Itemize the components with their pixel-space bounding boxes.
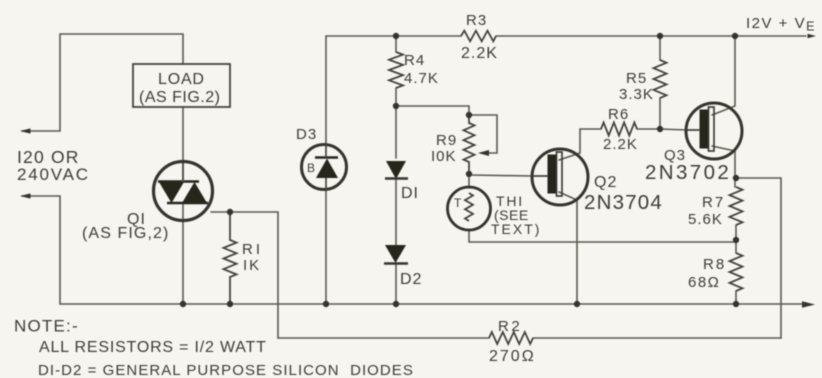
svg-text:(AS FIG,2): (AS FIG,2) — [82, 225, 169, 242]
node R4 top rail — [393, 33, 399, 39]
wire R7 to R8 — [735, 225, 737, 253]
wire R9 node to Q2 base — [469, 175, 533, 176]
arrow R9 wiper — [478, 150, 489, 156]
svg-text:R7: R7 — [702, 194, 725, 211]
svg-text:2N3704: 2N3704 — [584, 191, 663, 214]
transistor Q2 — [532, 149, 588, 205]
node R1 bottom rail — [227, 301, 233, 307]
wire top-left input riser — [22, 34, 183, 131]
triac Q1 — [154, 162, 213, 221]
node R5 top rail — [657, 33, 663, 39]
arrow bottom rail — [802, 301, 815, 307]
arrowheads — [20, 34, 816, 308]
node R7-R8 — [733, 237, 739, 243]
svg-text:ALL RESISTORS = I/2 WATT: ALL RESISTORS = I/2 WATT — [39, 339, 267, 356]
node R8 bottom rail — [733, 301, 739, 307]
arrow lower input — [20, 193, 31, 198]
wire D1 to D2 — [395, 178, 397, 245]
wire lower input to bottom rail — [22, 196, 60, 304]
svg-text:2N3702: 2N3702 — [645, 161, 731, 184]
svg-text:DI: DI — [401, 185, 419, 202]
resistor R5 3.3K — [654, 60, 667, 98]
wire R4 top lead — [395, 36, 397, 52]
wire LOAD to triac Q1 — [182, 107, 184, 163]
diode D3 in circle — [302, 145, 347, 191]
svg-text:Q2: Q2 — [594, 174, 617, 191]
svg-text:2.2K: 2.2K — [603, 136, 638, 153]
wire R8 to bottom rail — [735, 291, 737, 304]
wire R9 wiper loop — [469, 115, 497, 153]
wire R9 bottom lead — [468, 174, 470, 188]
LOAD box — [133, 64, 230, 107]
wire triac Q1 to bottom rail — [182, 203, 184, 304]
wire Q1 gate to R2 line — [211, 212, 278, 338]
svg-text:LOAD: LOAD — [158, 71, 205, 88]
svg-text:240VAC: 240VAC — [17, 165, 90, 184]
resistor R3 2.2K — [461, 31, 496, 42]
wire R2 line left segment — [278, 337, 489, 339]
svg-text:TEXT): TEXT) — [491, 221, 541, 237]
wire D2 to bottom rail — [395, 263, 397, 304]
resistor R1 1K — [224, 212, 237, 304]
svg-text:R2: R2 — [498, 318, 522, 335]
wire D3 bottom branch — [325, 190, 327, 304]
resistor R8 68 ohm — [730, 253, 743, 291]
arrow top rail 12V — [808, 34, 817, 38]
resistor R9 10K — [464, 115, 475, 174]
wire R5 top lead — [659, 36, 661, 60]
wire node to Q3 base — [660, 129, 687, 130]
transistor Q3 — [686, 103, 742, 159]
wire R2 line right segment — [533, 337, 781, 339]
wire top supply rail left of R3 — [326, 35, 461, 37]
node Q3 collector rail — [732, 33, 738, 39]
svg-text:IK: IK — [243, 257, 261, 274]
svg-text:R8: R8 — [703, 256, 726, 273]
svg-text:D2: D2 — [400, 271, 422, 288]
svg-text:R4: R4 — [404, 52, 425, 69]
svg-text:I2V + VE: I2V + VE — [746, 15, 816, 34]
node R4 bottom — [393, 103, 399, 109]
svg-text:4.7K: 4.7K — [404, 70, 439, 87]
node R9 top — [466, 112, 472, 118]
node Q3 emitter feedback — [733, 175, 739, 181]
wire Q3 collector to top rail — [712, 36, 735, 115]
wire Q2 collector to R6 — [559, 129, 601, 160]
wire TH1 bottom to R7-R8 node — [469, 230, 736, 242]
wire R6 right lead to node — [637, 128, 660, 130]
diode D1 — [385, 161, 408, 179]
node R1 top gate — [227, 209, 233, 215]
wire D1 anode lead — [395, 106, 397, 158]
svg-text:68Ω: 68Ω — [688, 274, 720, 291]
svg-text:T: T — [454, 196, 462, 210]
wire top supply rail right of R3 — [496, 35, 806, 37]
svg-text:R5: R5 — [626, 70, 647, 87]
resistor R4 4.7K — [389, 52, 403, 88]
resistor R7 5.6K — [730, 187, 743, 225]
node Q1 bottom rail — [180, 301, 186, 307]
diode D2 — [384, 245, 408, 264]
node Q2 emitter rail — [574, 301, 580, 307]
svg-text:R9: R9 — [436, 132, 457, 149]
node R5-R6-Q3 base — [657, 126, 663, 132]
svg-text:RI: RI — [242, 241, 263, 258]
thermistor TH1 internal zigzag — [465, 193, 473, 221]
arrow upper input — [20, 128, 31, 133]
svg-text:DI-D2 = GENERAL PURPOSE SILICO: DI-D2 = GENERAL PURPOSE SILICON DIODES — [38, 362, 414, 378]
svg-text:D3: D3 — [296, 126, 317, 143]
wire D3 top branch — [325, 36, 327, 145]
resistor R6 2.2K — [601, 123, 637, 136]
node R9 bottom — [466, 171, 472, 177]
svg-text:R3: R3 — [466, 12, 487, 29]
wire bottom rail — [60, 303, 806, 305]
resistor R2 270 ohm — [489, 332, 533, 344]
svg-text:(AS FIG.2): (AS FIG.2) — [139, 89, 220, 106]
thermistor TH1 circle — [448, 187, 491, 230]
node D2 bottom rail — [393, 301, 399, 307]
svg-text:I20 OR: I20 OR — [17, 147, 80, 167]
svg-text:I0K: I0K — [431, 148, 457, 165]
svg-text:NOTE:-: NOTE:- — [14, 317, 79, 336]
svg-text:270Ω: 270Ω — [489, 348, 536, 365]
wire R4 bottom to R9 top — [396, 106, 469, 118]
wire Q2 emitter to bottom rail — [559, 192, 577, 304]
svg-text:3.3K: 3.3K — [619, 86, 654, 103]
wire R5 bottom lead — [659, 98, 661, 129]
wire feedback from Q3 emitter node down right side — [736, 178, 781, 338]
svg-text:2.2K: 2.2K — [461, 45, 498, 62]
node D3 bottom rail — [323, 301, 329, 307]
svg-text:B: B — [307, 161, 315, 175]
svg-text:5.6K: 5.6K — [688, 211, 723, 228]
wire Q3 emitter to R7 — [712, 146, 735, 187]
svg-text:R6: R6 — [608, 106, 629, 123]
wire R4 bottom lead — [395, 88, 397, 106]
